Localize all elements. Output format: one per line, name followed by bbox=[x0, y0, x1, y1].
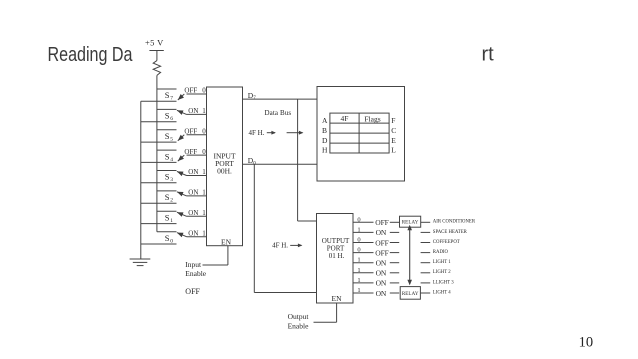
svg-text:1: 1 bbox=[357, 226, 360, 233]
svg-text:OFF: OFF bbox=[375, 248, 388, 257]
svg-text:Input: Input bbox=[185, 260, 202, 269]
svg-text:SPACE HEATER: SPACE HEATER bbox=[433, 230, 468, 235]
svg-text:6: 6 bbox=[170, 116, 173, 122]
svg-text:COFFEEPOT: COFFEEPOT bbox=[433, 240, 460, 245]
svg-text:4: 4 bbox=[170, 157, 173, 163]
svg-text:00H.: 00H. bbox=[217, 167, 232, 176]
svg-text:OFF: OFF bbox=[375, 238, 388, 247]
svg-text:01 H.: 01 H. bbox=[329, 252, 345, 260]
svg-text:B: B bbox=[322, 126, 327, 135]
svg-text:0: 0 bbox=[202, 148, 206, 156]
svg-text:ON: ON bbox=[376, 228, 387, 237]
svg-text:Output: Output bbox=[288, 312, 310, 321]
svg-text:ON: ON bbox=[188, 168, 198, 176]
svg-text:Data Bus: Data Bus bbox=[265, 109, 292, 117]
svg-text:AIR CONDITIONER: AIR CONDITIONER bbox=[433, 220, 476, 225]
svg-text:RADIO: RADIO bbox=[433, 250, 449, 255]
svg-text:LIGHT 2: LIGHT 2 bbox=[433, 270, 451, 275]
svg-text:ON: ON bbox=[376, 269, 387, 278]
svg-text:1: 1 bbox=[357, 267, 360, 274]
svg-text:ON: ON bbox=[188, 107, 198, 115]
svg-text:Enable: Enable bbox=[288, 321, 309, 330]
svg-text:C: C bbox=[391, 126, 396, 135]
svg-text:4F: 4F bbox=[341, 114, 349, 123]
svg-text:0: 0 bbox=[202, 87, 206, 95]
svg-text:0: 0 bbox=[357, 247, 360, 254]
svg-text:L: L bbox=[391, 145, 396, 154]
svg-text:5: 5 bbox=[170, 137, 173, 143]
svg-text:1: 1 bbox=[202, 107, 206, 115]
svg-text:Reading Da: Reading Da bbox=[48, 44, 134, 66]
svg-text:A: A bbox=[322, 116, 328, 125]
svg-text:OFF: OFF bbox=[185, 287, 200, 296]
svg-text:S: S bbox=[165, 192, 170, 202]
svg-text:0: 0 bbox=[357, 216, 360, 223]
svg-text:S: S bbox=[165, 131, 170, 141]
svg-text:ON: ON bbox=[376, 289, 387, 298]
svg-text:LIGHT 1: LIGHT 1 bbox=[433, 260, 451, 265]
svg-text:OFF: OFF bbox=[184, 87, 197, 95]
svg-text:rt: rt bbox=[482, 44, 495, 66]
svg-text:1: 1 bbox=[202, 209, 206, 217]
svg-text:RELAY: RELAY bbox=[402, 221, 419, 226]
svg-text:ON: ON bbox=[188, 189, 198, 197]
svg-text:1: 1 bbox=[202, 168, 206, 176]
svg-text:ON: ON bbox=[188, 209, 198, 217]
svg-text:Flags: Flags bbox=[364, 114, 380, 123]
svg-text:4F H.: 4F H. bbox=[249, 129, 265, 137]
svg-text:EN: EN bbox=[332, 294, 343, 303]
svg-text:OFF: OFF bbox=[184, 128, 197, 136]
svg-text:S: S bbox=[165, 213, 170, 223]
svg-text:0: 0 bbox=[170, 238, 173, 244]
svg-text:OFF: OFF bbox=[375, 218, 388, 227]
svg-text:EN: EN bbox=[221, 237, 232, 246]
svg-text:1: 1 bbox=[357, 277, 360, 284]
svg-text:7: 7 bbox=[170, 96, 173, 102]
svg-text:H: H bbox=[322, 145, 328, 154]
svg-text:0: 0 bbox=[202, 128, 206, 136]
svg-text:LIGHT 4: LIGHT 4 bbox=[433, 290, 451, 295]
svg-text:2: 2 bbox=[170, 198, 173, 204]
svg-text:LLIGHT 3: LLIGHT 3 bbox=[433, 280, 454, 285]
svg-text:0: 0 bbox=[357, 237, 360, 244]
svg-text:F: F bbox=[391, 116, 395, 125]
svg-text:S: S bbox=[165, 172, 170, 182]
svg-text:S: S bbox=[165, 90, 170, 100]
svg-text:10: 10 bbox=[579, 334, 594, 350]
svg-text:ON: ON bbox=[188, 229, 198, 237]
svg-text:1: 1 bbox=[357, 287, 360, 294]
svg-text:1: 1 bbox=[357, 257, 360, 264]
svg-text:ON: ON bbox=[376, 259, 387, 268]
svg-text:OFF: OFF bbox=[184, 148, 197, 156]
svg-text:RELAY: RELAY bbox=[402, 292, 419, 297]
svg-text:S: S bbox=[165, 151, 170, 161]
svg-text:4F H.: 4F H. bbox=[272, 242, 288, 250]
svg-text:1: 1 bbox=[202, 229, 206, 237]
svg-text:ON: ON bbox=[376, 279, 387, 288]
svg-text:Enable: Enable bbox=[185, 269, 206, 278]
svg-text:1: 1 bbox=[202, 189, 206, 197]
svg-text:1: 1 bbox=[170, 218, 173, 224]
svg-text:S: S bbox=[165, 111, 170, 121]
svg-text:S: S bbox=[165, 233, 170, 243]
svg-text:3: 3 bbox=[170, 177, 173, 183]
svg-text:+5 V: +5 V bbox=[145, 38, 164, 48]
svg-text:E: E bbox=[391, 136, 396, 145]
svg-text:D: D bbox=[322, 136, 328, 145]
